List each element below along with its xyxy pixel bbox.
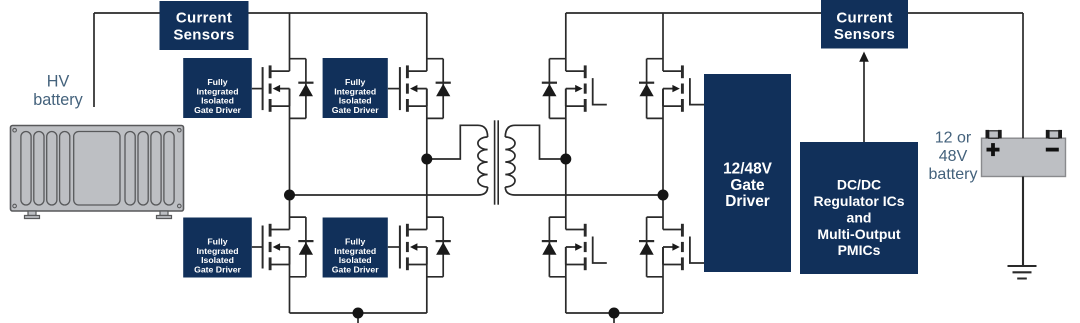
svg-text:DC/DC: DC/DC [837,177,881,193]
svg-text:battery: battery [33,91,83,109]
svg-text:Regulator ICs: Regulator ICs [813,193,904,209]
svg-text:battery: battery [929,166,978,183]
svg-text:12/48V: 12/48V [723,161,773,178]
svg-text:Sensors: Sensors [834,26,895,43]
svg-text:Sensors: Sensors [173,27,234,44]
svg-text:Current: Current [836,10,892,27]
svg-text:Current: Current [176,10,232,27]
svg-text:12 or: 12 or [935,129,972,146]
svg-text:Gate Driver: Gate Driver [194,265,241,275]
svg-text:HV: HV [47,72,70,90]
svg-text:Gate: Gate [730,177,765,194]
svg-text:Multi-Output: Multi-Output [817,226,901,242]
svg-text:and: and [847,209,872,225]
svg-text:PMICs: PMICs [838,242,881,258]
svg-text:Gate Driver: Gate Driver [194,105,241,115]
svg-text:Gate Driver: Gate Driver [332,265,379,275]
svg-text:Gate Driver: Gate Driver [332,105,379,115]
svg-text:Driver: Driver [725,193,770,210]
svg-text:48V: 48V [939,148,968,165]
